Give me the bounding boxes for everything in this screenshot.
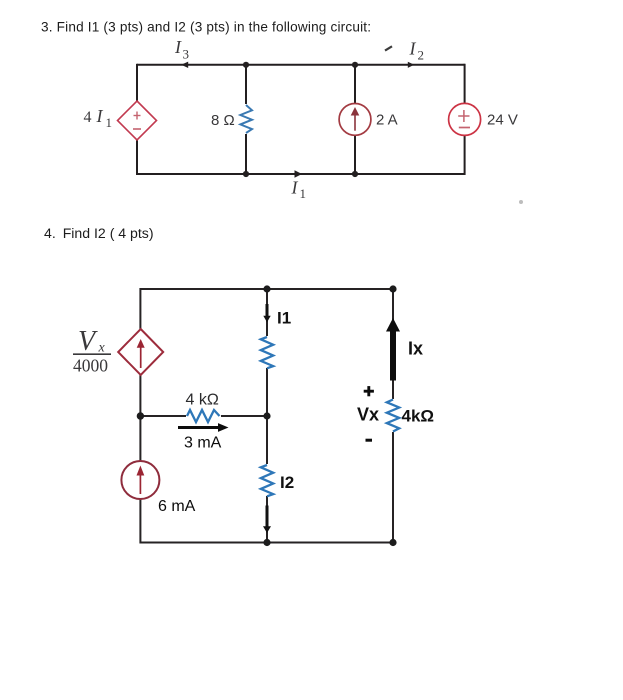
label I3 — [174, 37, 189, 62]
label I1 (circuit 3) — [291, 178, 307, 202]
arrow for I3 on top rail (pointing left) — [181, 62, 188, 68]
svg-text:4: 4 — [84, 109, 92, 126]
wire: top rail of circuit 4 — [140, 288, 393, 290]
heading problem 4 — [44, 225, 154, 241]
label I2 — [409, 39, 425, 63]
label - (Vx polarity) — [366, 439, 373, 442]
svg-text:I: I — [409, 39, 417, 59]
resistor 8 ohm (blue zigzag) — [239, 104, 253, 134]
svg-text:V: V — [78, 326, 98, 357]
label 4 I1 — [84, 106, 113, 130]
wire: 8-ohm branch vertical — [245, 65, 247, 174]
svg-text:8 Ω: 8 Ω — [211, 112, 235, 129]
tick mark near I2 — [385, 46, 392, 50]
arrow Ix (thick, pointing up) — [386, 318, 400, 381]
current source 6 mA — [121, 461, 159, 499]
node: middle junction — [263, 412, 270, 419]
svg-text:x: x — [98, 341, 106, 356]
current source 2A — [339, 104, 371, 136]
svg-text:4 kΩ: 4 kΩ — [186, 392, 219, 409]
svg-text:I: I — [96, 106, 104, 126]
resistor (middle branch lower, blue zigzag) — [259, 464, 275, 496]
voltage source 24V — [449, 103, 481, 135]
svg-text:1: 1 — [106, 115, 113, 130]
wire: bottom rail of circuit 4 — [140, 542, 393, 544]
dependent source 4I1 (diamond) — [118, 101, 157, 140]
arrow below I2 (pointing down) — [263, 506, 271, 534]
resistor (middle branch upper, blue zigzag) — [259, 336, 275, 368]
svg-text:2 A: 2 A — [376, 112, 398, 129]
svg-text:2: 2 — [418, 48, 425, 63]
wire: left rail of circuit 3 — [136, 64, 138, 175]
node: top of middle branch — [263, 285, 270, 292]
svg-text:1: 1 — [300, 186, 307, 201]
svg-text:4kΩ: 4kΩ — [402, 406, 435, 425]
svg-text:Vx: Vx — [357, 405, 379, 425]
svg-text:3 mA: 3 mA — [184, 435, 222, 452]
svg-text:I: I — [174, 37, 182, 57]
node: top right corner — [389, 285, 396, 292]
svg-text:6 mA: 6 mA — [158, 498, 196, 515]
wire: right rail of circuit 3 (24V branch) — [464, 64, 466, 175]
wire: 2A branch vertical — [354, 65, 356, 174]
node: bottom of 8-ohm branch — [243, 171, 249, 177]
arrow 3 mA (pointing right) — [178, 423, 229, 432]
wire: middle horizontal (4k / 3mA branch) — [140, 415, 267, 417]
resistor 4kOhm (right branch, blue zigzag) — [385, 399, 401, 432]
node: bottom of middle branch — [263, 539, 270, 546]
arrow for I2 on top rail (pointing right) — [408, 62, 414, 68]
node: bottom of 2A branch — [352, 171, 358, 177]
wire: middle branch vertical — [266, 289, 268, 543]
svg-text:24 V: 24 V — [487, 112, 518, 129]
wire: top rail of circuit 3 — [137, 64, 465, 66]
wire: bottom rail of circuit 3 — [137, 173, 465, 175]
node: top of 2A branch — [352, 62, 358, 68]
arrow I1 (middle branch, pointing down) — [263, 304, 270, 322]
resistor 4 kOhm (horizontal, blue zigzag) — [186, 410, 221, 422]
wire: right rail of circuit 4 — [392, 289, 394, 543]
node: bottom right corner — [389, 539, 396, 546]
label + (Vx polarity) — [364, 386, 374, 396]
svg-text:3: 3 — [183, 47, 190, 62]
label Vx/4000 fraction — [73, 326, 111, 375]
svg-text:I: I — [291, 178, 299, 198]
stray faint dot — [519, 200, 523, 204]
svg-text:4.: 4. — [44, 225, 56, 241]
svg-text:I1: I1 — [277, 309, 291, 328]
svg-text:I2: I2 — [280, 473, 294, 492]
arrow for I1 on bottom rail (pointing right) — [295, 170, 303, 178]
svg-text:Ix: Ix — [408, 339, 423, 359]
node: middle of left rail — [137, 412, 144, 419]
dependent source Vx/4000 (diamond) — [118, 329, 163, 375]
node: top of 8-ohm branch — [243, 62, 249, 68]
svg-text:4000: 4000 — [73, 355, 108, 375]
svg-text:Find I2 ( 4 pts): Find I2 ( 4 pts) — [63, 225, 154, 241]
svg-text:3. Find I1 (3 pts) and I2 (3 p: 3. Find I1 (3 pts) and I2 (3 pts) in the… — [41, 20, 371, 35]
wire: left rail of circuit 4 — [139, 288, 141, 544]
